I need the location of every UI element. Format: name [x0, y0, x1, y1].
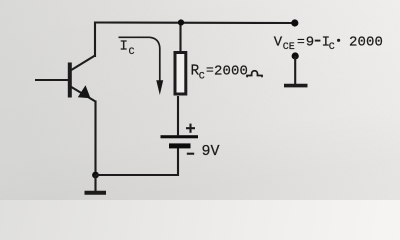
svg-text:9V: 9V [202, 143, 220, 160]
label: battery minus sign [187, 153, 194, 155]
label: battery plus sign [186, 124, 195, 133]
svg-text:C: C [329, 42, 335, 53]
wire: emitter down to bottom junction [94, 101, 96, 177]
node: dot at resistor / top rail [178, 19, 184, 25]
wire: battery positive up to resistor [177, 96, 179, 136]
wire: VCE node down to ground [294, 56, 296, 84]
svg-text:I: I [120, 39, 128, 55]
wire: battery negative riser [177, 147, 179, 176]
svg-text:C: C [199, 71, 205, 82]
wire: bottom horizontal to battery [96, 174, 179, 176]
ground: right under VCE [284, 84, 308, 88]
label VCE = 9 - IC * 2000 [274, 34, 383, 53]
svg-text:V: V [274, 35, 283, 51]
wire: resistor top to rail [179, 22, 181, 52]
resistor RC body [175, 53, 186, 95]
svg-text:2000: 2000 [349, 35, 383, 51]
svg-text:=: = [206, 63, 214, 78]
svg-text:CE: CE [283, 42, 295, 53]
label IC (current) [120, 39, 135, 59]
node: dot above right ground [292, 52, 299, 59]
ohm symbol [247, 71, 262, 77]
node: bottom junction dot [92, 172, 99, 179]
svg-text:9: 9 [306, 35, 314, 51]
wire: left vertical from top rail to collector [94, 22, 96, 58]
battery B1 9V [161, 135, 199, 148]
wire: top rail [95, 21, 294, 24]
svg-text:=: = [297, 34, 305, 49]
svg-text:2000: 2000 [214, 63, 248, 79]
current arrow IC [119, 37, 164, 95]
ground: bottom-left [85, 175, 107, 193]
svg-text:C: C [129, 47, 135, 58]
transistor Q1 [35, 56, 96, 102]
node: top-right dot (VCE node) [291, 19, 298, 26]
label RC = 2000 ohm [191, 63, 263, 83]
